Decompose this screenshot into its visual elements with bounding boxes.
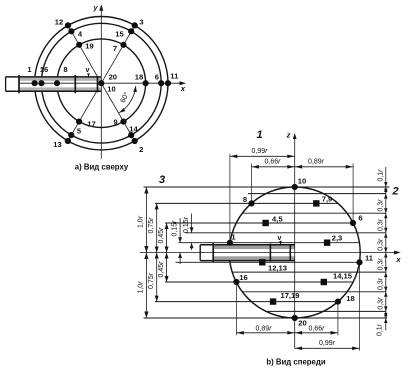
front view sphere outline [229,187,360,318]
svg-text:8: 8 [63,65,67,74]
front view points 12,13 square [259,259,265,265]
right chain arrows at z=-0.9 [384,311,387,316]
ext line x=-0.99r [229,154,231,242]
right dimension chain line [385,167,387,331]
ext line x=+0.89r [352,164,354,223]
top view diagonal ray 300 [101,83,134,141]
svg-text:0,3r: 0,3r [378,277,385,290]
front view rod joint 2 [269,244,271,262]
front view rod body [200,245,295,261]
front view level line z=0.75r [155,202,338,204]
svg-text:4,5: 4,5 [272,215,283,224]
ext line x=+0.66r bottom [337,303,339,336]
svg-text:15: 15 [115,30,124,39]
top view point 8 dot [54,80,60,86]
top view point 1 dot [31,80,37,86]
right chain arrows at z=0.9 [384,194,387,199]
svg-text:16: 16 [239,273,247,282]
top view: sphere outline 0.99r [35,17,168,150]
svg-text:13: 13 [53,140,61,149]
front view points 2,3 square [324,240,330,246]
top view point 18 dot [143,80,149,86]
svg-text:9: 9 [113,118,117,127]
svg-text:0,99r: 0,99r [319,340,336,347]
left chain line B 0,75r [156,203,158,301]
front view points 7,9 square [313,200,319,206]
dimension 0,99r top [230,155,295,157]
top view point 7 dot [120,42,126,48]
front view points 4,5 square [262,220,268,226]
front view level line z=-0.15r [176,261,360,263]
svg-text:2: 2 [391,186,398,198]
right chain arrows at z=0.3 [384,233,387,238]
top view center point 10/20 dot [98,80,104,86]
top view point 4 dot [68,28,74,34]
front view point 18 dot [335,299,341,305]
dimension 0,89r bottom [236,332,294,334]
top view rod joint 2 [74,75,76,93]
front view point 1 dot [227,240,233,246]
svg-text:11: 11 [170,72,179,81]
svg-text:0,3r: 0,3r [378,199,385,212]
svg-text:11: 11 [365,254,374,263]
right chain arrows at z=0.0 [384,253,387,258]
svg-text:10: 10 [298,177,306,186]
front view level line z=0.3r [186,232,386,234]
svg-text:x: x [395,255,401,264]
svg-text:0,66r: 0,66r [309,326,326,333]
svg-text:0,89r: 0,89r [256,326,273,333]
top view rod joint 3 [97,76,99,92]
top view point 11 dot [165,80,171,86]
front view rod left end cap [199,245,201,261]
left chain D 0,15r (0.15 to 0) [179,218,181,243]
left chain E 0,15r (0.3 to 0.15) [191,214,193,233]
svg-text:0,3r: 0,3r [378,218,385,231]
front view points 17,19 square [270,298,276,304]
svg-text:10: 10 [107,84,115,93]
svg-text:0,75r: 0,75r [148,217,155,234]
svg-text:6: 6 [155,73,159,82]
dimension 0,99r bottom [295,347,360,349]
svg-text:0,45r: 0,45r [158,227,165,244]
front view level line z=-1.0r [144,317,388,319]
top view y axis [100,9,102,159]
right chain arrows at z=-0.3 [384,272,387,277]
front view x axis [140,252,397,254]
front view level line z=-0.6r [242,291,385,293]
svg-text:8: 8 [243,195,247,204]
top view point 6 dot [158,80,164,86]
top view diagonal ray 240 [68,83,101,141]
svg-text:0,45r: 0,45r [158,261,165,278]
top view point 5 dot [68,132,74,138]
top view rod (derzhavka) body [6,77,102,91]
front view point 11 dot [356,259,362,265]
svg-text:1,0r: 1,0r [138,281,145,294]
top view point 17 dot [76,119,82,125]
svg-text:0,1r: 0,1r [378,169,385,182]
svg-text:а) Вид сверху: а) Вид сверху [75,163,129,172]
top view point 3 dot [132,22,138,28]
dimension 0,89r top [295,166,353,168]
svg-text:1,0r: 1,0r [138,215,145,228]
svg-text:16: 16 [40,65,48,74]
front view level line z=-0.75r [155,301,338,303]
svg-text:18: 18 [135,73,143,82]
top view: measurement circle 0.89r [41,23,161,143]
svg-text:0,89r: 0,89r [308,159,325,166]
front view z axis [294,137,296,348]
svg-text:2: 2 [139,145,143,154]
top view diagonal ray 60-240 [101,25,134,83]
top view x axis [19,82,182,84]
front view level line z=1.0r [144,186,390,188]
svg-text:14,15: 14,15 [333,271,353,280]
right chain arrows at z=-1.0 [384,318,387,323]
front view level line z=0.15r [179,242,360,244]
svg-text:0,1r: 0,1r [377,323,384,336]
top view point 9 dot [120,119,126,125]
svg-text:17: 17 [87,120,95,129]
svg-text:18: 18 [346,294,354,303]
ext line x=-0.66r [251,164,253,203]
front view level line z=-0.3r [232,271,386,273]
front view level line z=0.6r [242,212,385,214]
top view point 2 dot [132,138,138,144]
svg-text:1: 1 [256,129,262,141]
dimension 0,66r top [252,166,295,168]
front view level line z=-0.45r [165,281,353,283]
svg-text:0,99r: 0,99r [252,148,269,155]
svg-text:20: 20 [298,319,306,328]
svg-text:12: 12 [55,18,63,27]
front view level line z=-0.9r [266,310,386,312]
svg-text:20: 20 [109,73,117,82]
left chain line C 0,45r [166,223,168,282]
right chain arrows at z=0.6 [384,213,387,218]
front view level line z=0.45r [165,222,353,224]
front view point 16 dot [233,279,239,285]
front view rod joint 3 [289,245,291,261]
svg-text:2,3: 2,3 [332,234,343,243]
top view point 14 dot [128,132,134,138]
svg-text:0,15r: 0,15r [183,216,190,233]
front view level line z=0.9r [248,193,386,195]
svg-text:3: 3 [159,174,165,186]
svg-text:x: x [180,84,186,93]
svg-text:17,19: 17,19 [280,291,299,300]
svg-text:6: 6 [358,214,362,223]
top view: measurement circle 0.66r [57,39,146,128]
svg-text:7,9: 7,9 [322,195,333,204]
svg-text:0,66r: 0,66r [265,159,282,166]
ext line x=-0.89r bottom [235,283,237,335]
front view point 8 dot [248,200,254,206]
svg-text:19: 19 [85,42,93,51]
top view point 13 dot [65,138,71,144]
svg-text:z: z [286,130,291,139]
front view point 20 dot [292,315,298,321]
top view diagonal ray 120 [68,25,101,83]
svg-text:0,15r: 0,15r [172,220,179,237]
svg-text:0,3r: 0,3r [378,238,385,251]
dimension 0,66r bottom [295,332,338,334]
svg-text:0,3r: 0,3r [378,258,385,271]
top view rod left end cap [5,77,7,91]
front view points 14,15 square [321,279,327,285]
top view point 15 dot [128,28,134,34]
svg-text:0,75r: 0,75r [148,272,155,289]
front view rod joint 1 [212,243,214,262]
right chain arrows at z=-0.6 [384,292,387,297]
top view point 16 dot [38,80,44,86]
svg-text:14: 14 [129,125,138,134]
top view point 12 dot [65,22,71,28]
svg-text:3: 3 [139,18,143,27]
front view point 10 dot [292,184,298,190]
svg-text:v: v [86,67,90,74]
svg-text:b) Вид спереди: b) Вид спереди [266,358,325,367]
svg-text:0,3r: 0,3r [378,297,385,310]
svg-text:12,13: 12,13 [268,264,287,273]
front view point 6 dot [350,220,356,226]
svg-text:7: 7 [113,44,117,53]
ext line x=+0.99r bottom [359,263,361,351]
left chain line A 1,0r [145,187,147,318]
top view point 19 dot [76,42,82,48]
svg-text:y: y [93,3,99,12]
top view 60 degree angle arc [119,86,136,113]
right chain arrows at z=1.0 [384,187,387,192]
top view rod joint 1 [18,75,20,93]
